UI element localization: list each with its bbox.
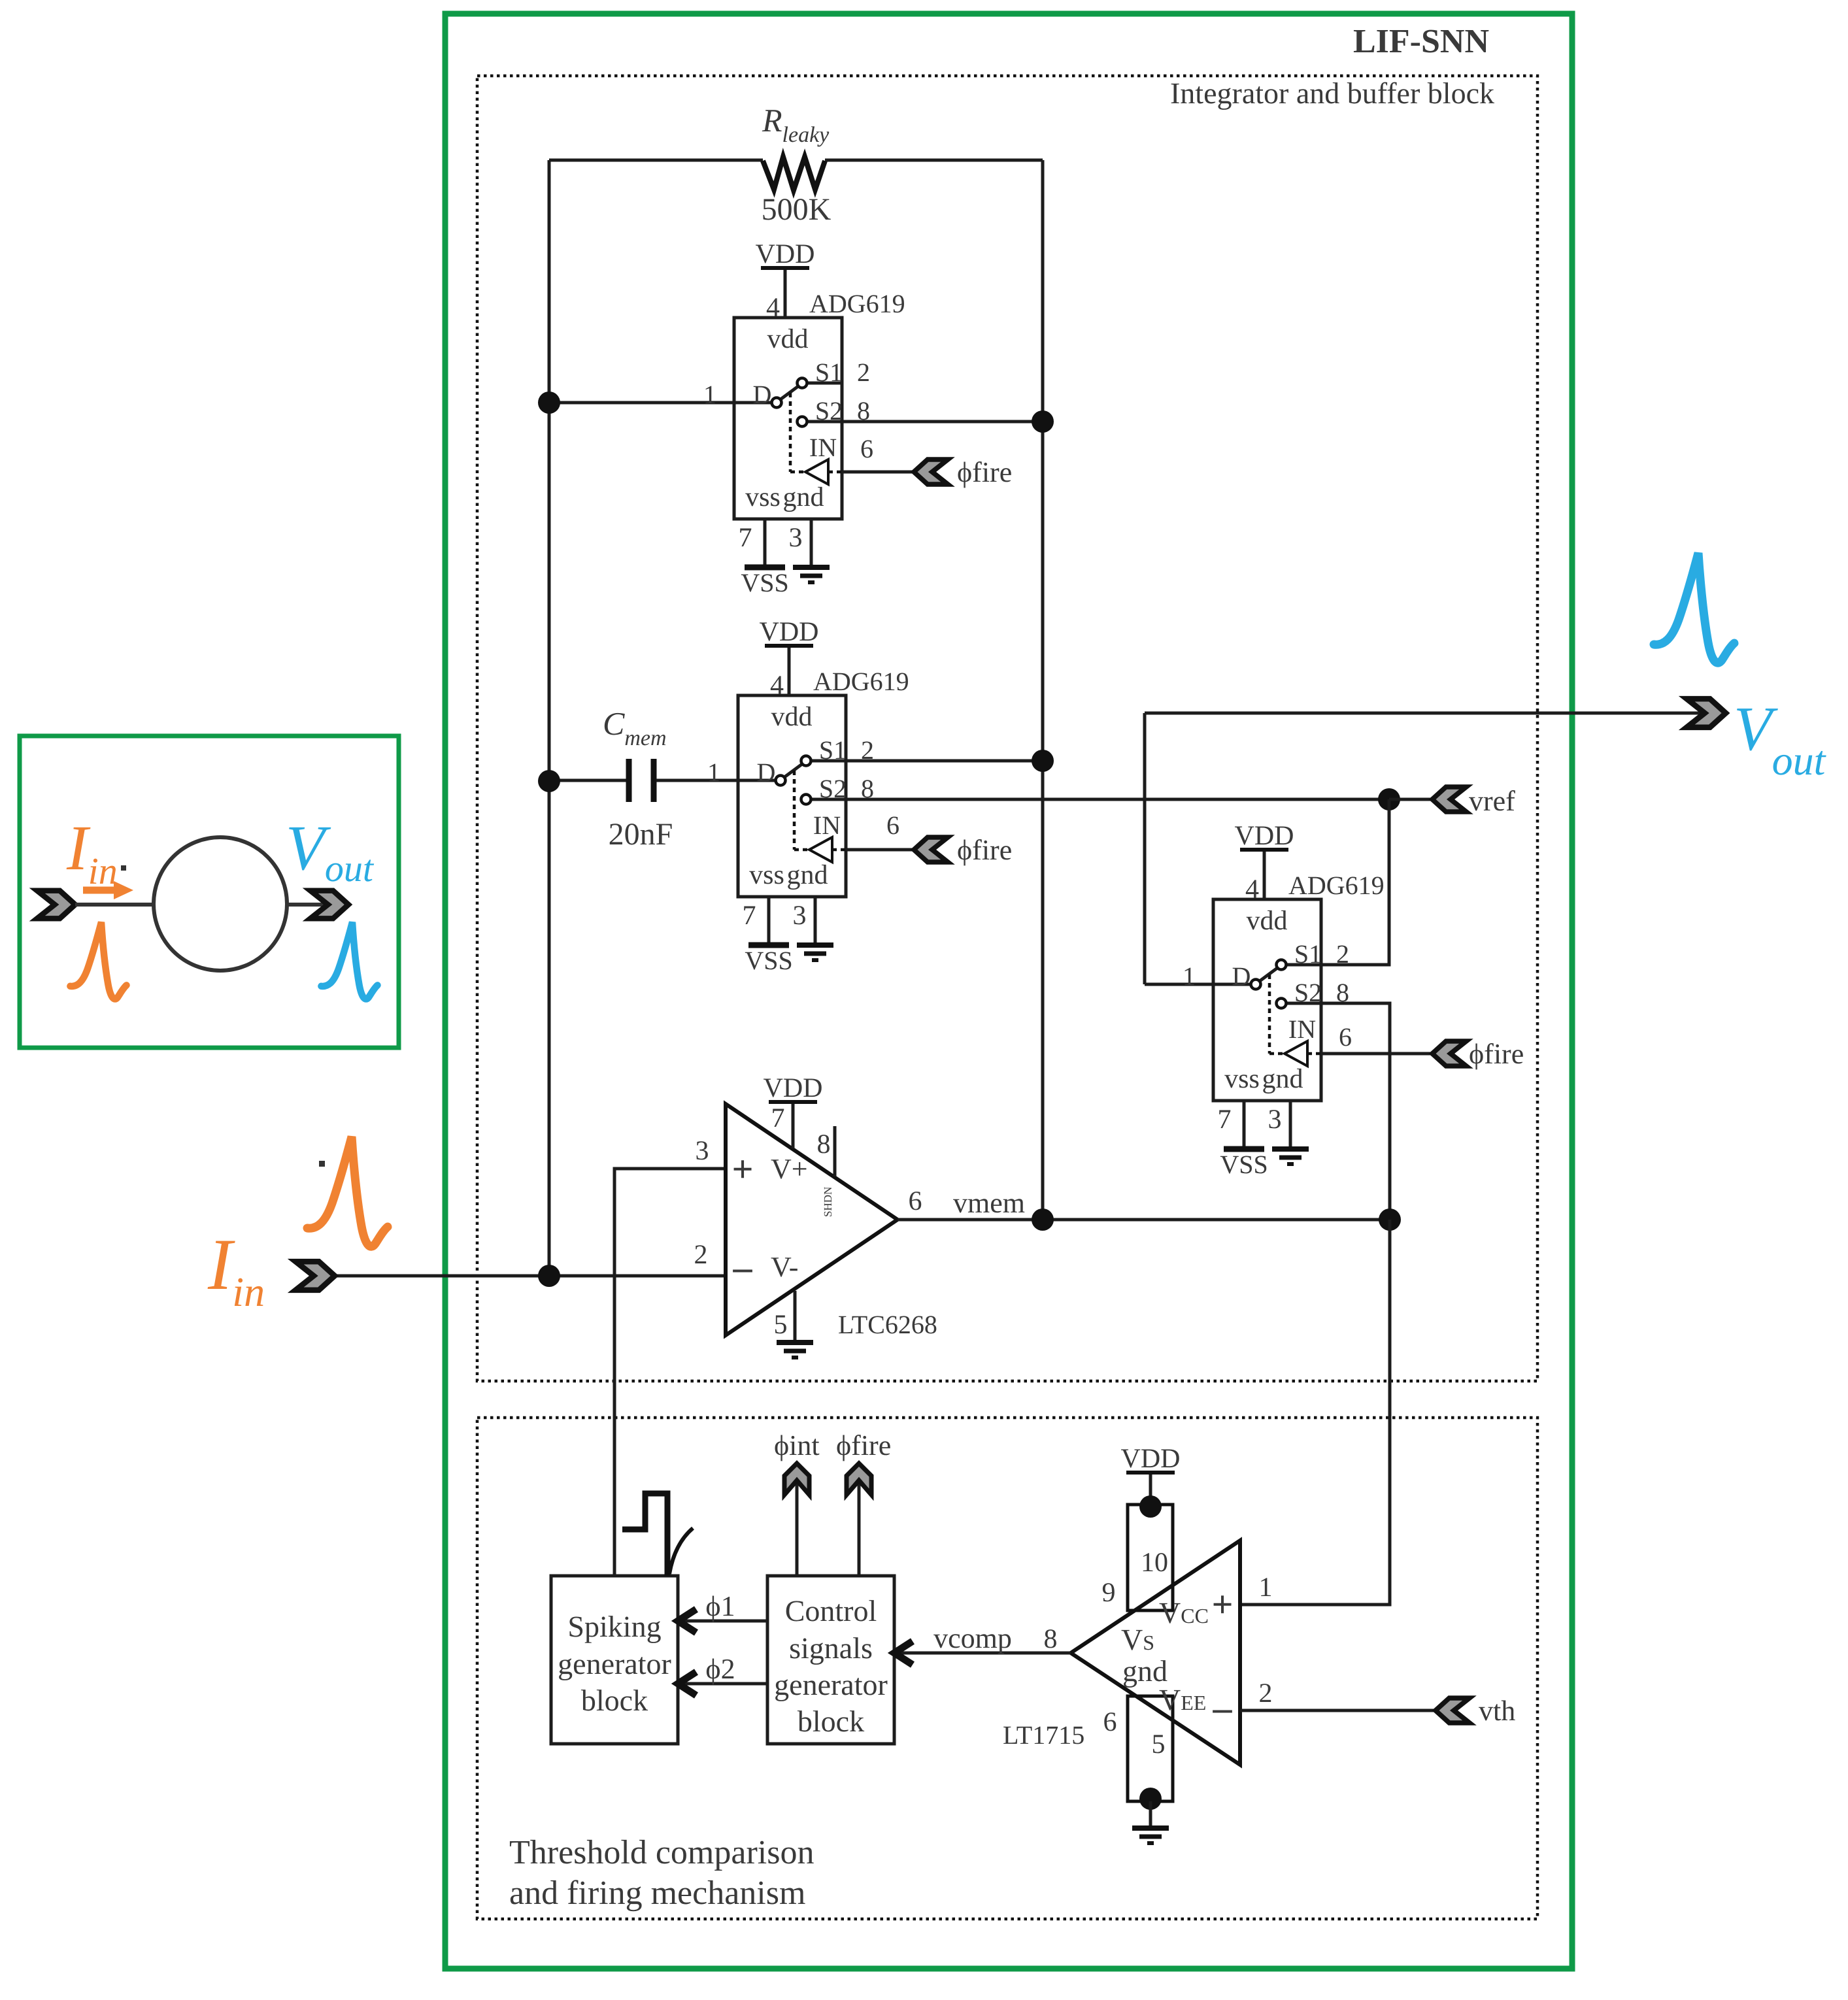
port inset output xyxy=(311,891,348,919)
svg-text:block: block xyxy=(581,1684,648,1717)
node: VDD to pin10 xyxy=(1139,1495,1162,1518)
analog switch U3 ADG619 xyxy=(1183,821,1385,1179)
waveform: inset input spike (orange) xyxy=(70,922,126,999)
node: junction vmem/comparator xyxy=(1379,1208,1401,1231)
svg-text:5: 5 xyxy=(774,1310,788,1340)
svg-text:2: 2 xyxy=(1259,1678,1273,1708)
node: junction bus/C_mem xyxy=(538,770,560,792)
analog switch U2 ADG619 xyxy=(707,617,909,975)
svg-text:Iin: Iin xyxy=(207,1224,265,1315)
port Vout xyxy=(1687,699,1726,727)
port phi-fire (up) xyxy=(847,1463,871,1495)
svg-text:ϕfire: ϕfire xyxy=(957,456,1012,488)
block: Control signals generator xyxy=(767,1576,894,1744)
wire: D input of U3 xyxy=(1145,983,1213,986)
svg-text:Iin: Iin xyxy=(66,813,118,892)
arrow: Iin direction (orange) xyxy=(83,881,133,899)
svg-text:ϕfire: ϕfire xyxy=(1469,1038,1524,1070)
wire: phi-fire output xyxy=(858,1484,861,1576)
comparator pin 10 box xyxy=(1128,1505,1173,1610)
port vth xyxy=(1436,1698,1470,1723)
wire: inset output xyxy=(287,903,348,907)
svg-text:Integrator and buffer block: Integrator and buffer block xyxy=(1170,76,1494,110)
svg-text:Spiking: Spiking xyxy=(567,1610,661,1643)
svg-text:ϕfire: ϕfire xyxy=(957,834,1012,866)
wire: vmem net xyxy=(898,1218,1390,1222)
node: junction S1-U2/right bus xyxy=(1032,750,1054,772)
wire: comparator minus to vth port xyxy=(1240,1709,1436,1712)
dashed block: Integrator and buffer block xyxy=(477,76,1537,1381)
svg-text:1: 1 xyxy=(1259,1573,1273,1603)
svg-text:7: 7 xyxy=(771,1103,785,1133)
svg-text:V+: V+ xyxy=(771,1153,808,1185)
svg-text:8: 8 xyxy=(817,1129,831,1159)
svg-text:signals: signals xyxy=(789,1631,873,1665)
wire: S2 of U2 to vref net xyxy=(846,798,1389,801)
op-amp pin 5 ground xyxy=(774,1291,814,1358)
wire: Vout horizontal xyxy=(1145,712,1726,715)
svg-text:ϕfire: ϕfire xyxy=(836,1429,891,1461)
svg-text:vth: vth xyxy=(1479,1695,1515,1727)
neuron circle xyxy=(154,837,287,971)
wire: vref stub to port xyxy=(1389,798,1432,801)
svg-text:LTC6268: LTC6268 xyxy=(838,1310,937,1339)
port phi-fire (U1) xyxy=(914,459,948,484)
inset: neuron model green box xyxy=(20,736,399,1048)
frame: outer green border LIF-SNN xyxy=(445,14,1572,1969)
comparator ground xyxy=(1132,1801,1169,1843)
block: Spiking generator xyxy=(551,1576,678,1744)
wire phi1 with arrow xyxy=(678,1609,767,1633)
svg-text:Rleaky: Rleaky xyxy=(762,102,830,147)
wire: right vertical bus xyxy=(1041,160,1045,1220)
wire: Vout vertical to U3 D xyxy=(1143,713,1147,984)
node: junction S2-U1/right bus xyxy=(1032,410,1054,433)
port phi-int (up) xyxy=(784,1463,809,1495)
wire: top feedback horizontal (left of resistor) xyxy=(549,159,763,162)
comparator VDD xyxy=(1121,1444,1181,1505)
op-amp VDD pin 7 xyxy=(764,1073,823,1148)
port phi-fire (U3) xyxy=(1432,1041,1466,1066)
wire phi2 with arrow xyxy=(678,1672,767,1695)
svg-text:and firing mechanism: and firing mechanism xyxy=(509,1875,805,1912)
svg-text:+: + xyxy=(731,1148,753,1190)
analog switch U1 ADG619 xyxy=(703,239,905,597)
svg-text:LT1715: LT1715 xyxy=(1003,1720,1084,1750)
wire: S1 of U3 up to vref xyxy=(1321,799,1389,965)
port inset input xyxy=(37,891,75,919)
svg-text:Cmem: Cmem xyxy=(603,705,667,750)
svg-text:Vout: Vout xyxy=(286,813,375,890)
wire: vmem down to comparator plus input xyxy=(1240,1220,1390,1605)
svg-text:8: 8 xyxy=(1044,1624,1058,1654)
waveform: output spike (cyan, top right) xyxy=(1654,553,1734,663)
svg-text:Vout: Vout xyxy=(1734,693,1827,784)
comparator U5 LT1715 triangle xyxy=(1071,1541,1240,1765)
wire vcomp with arrow xyxy=(894,1641,1071,1665)
wire: S1 of U2 to right bus xyxy=(846,759,1043,763)
wire: pin 6 of U3 xyxy=(1321,1052,1432,1056)
resistor R_leaky zigzag xyxy=(763,157,825,190)
dashed block: Threshold comparison and firing mechanism xyxy=(477,1418,1537,1919)
svg-text:9: 9 xyxy=(1102,1578,1116,1608)
svg-text:–: – xyxy=(733,1246,753,1288)
node: junction bus/U1-D xyxy=(538,392,560,414)
svg-text:ϕ1: ϕ1 xyxy=(705,1590,735,1622)
op-amp SHDN pin 8 xyxy=(817,1126,835,1217)
port Iin xyxy=(295,1261,335,1290)
svg-text:generator: generator xyxy=(558,1647,671,1680)
waveform: input spike (orange) xyxy=(307,1137,388,1246)
svg-text:6: 6 xyxy=(860,434,873,463)
svg-text:ϕint: ϕint xyxy=(774,1429,820,1461)
svg-text:block: block xyxy=(798,1705,864,1738)
node: junction vref xyxy=(1378,788,1400,810)
svg-text:SHDN: SHDN xyxy=(822,1187,834,1217)
wire: inset input xyxy=(75,903,154,907)
node: pin5 to ground xyxy=(1139,1788,1162,1810)
svg-text:2: 2 xyxy=(694,1240,708,1270)
svg-text:V-: V- xyxy=(771,1251,798,1283)
wire: phi-int output xyxy=(796,1484,799,1576)
wire: D input of U1 xyxy=(549,401,734,405)
wire: S2 of U1 to right bus xyxy=(842,420,1043,424)
wire: pin 6 of U1 xyxy=(842,471,914,474)
svg-text:6: 6 xyxy=(1339,1022,1352,1052)
wire: Iin input net xyxy=(335,1275,726,1278)
svg-text:vref: vref xyxy=(1469,785,1515,817)
svg-text:5: 5 xyxy=(1152,1729,1166,1759)
svg-text:10: 10 xyxy=(1141,1548,1168,1578)
svg-text:generator: generator xyxy=(774,1668,888,1701)
svg-text:20nF: 20nF xyxy=(609,817,673,852)
port vref xyxy=(1432,787,1466,812)
svg-text:–: – xyxy=(1213,1686,1233,1729)
svg-text:6: 6 xyxy=(886,810,899,840)
port phi-fire (U2) xyxy=(914,837,948,862)
dot mark near inset Iin xyxy=(121,865,126,871)
wire: S2 of U3 down to vmem xyxy=(1321,1003,1390,1220)
wire: op-amp V+ loop to spiking block xyxy=(614,1169,726,1576)
svg-text:ϕ2: ϕ2 xyxy=(705,1653,735,1685)
node: junction bus/Iin xyxy=(538,1265,560,1287)
op-amp U4 LTC6268 triangle xyxy=(726,1104,898,1335)
svg-text:Control: Control xyxy=(785,1594,877,1627)
dot mark near Iin spike xyxy=(319,1161,325,1167)
waveform: step symbol above spiking block xyxy=(622,1493,693,1576)
waveform: inset output spike (cyan) xyxy=(321,922,377,999)
svg-text:6: 6 xyxy=(1103,1707,1117,1737)
comparator pin 5 box xyxy=(1128,1696,1173,1801)
node: junction vmem/right bus xyxy=(1032,1208,1054,1231)
wire: pin 6 of U2 xyxy=(846,848,914,852)
svg-text:Threshold comparison: Threshold comparison xyxy=(509,1834,814,1871)
svg-text:vcomp: vcomp xyxy=(933,1622,1012,1654)
svg-text:3: 3 xyxy=(696,1136,709,1166)
svg-text:LIF-SNN: LIF-SNN xyxy=(1353,23,1489,60)
svg-text:vmem: vmem xyxy=(953,1187,1025,1219)
capacitor C_mem xyxy=(549,759,738,802)
wire: left vertical bus xyxy=(548,160,551,1276)
svg-text:500K: 500K xyxy=(762,192,832,227)
svg-text:6: 6 xyxy=(909,1186,922,1216)
svg-text:+: + xyxy=(1211,1583,1233,1625)
